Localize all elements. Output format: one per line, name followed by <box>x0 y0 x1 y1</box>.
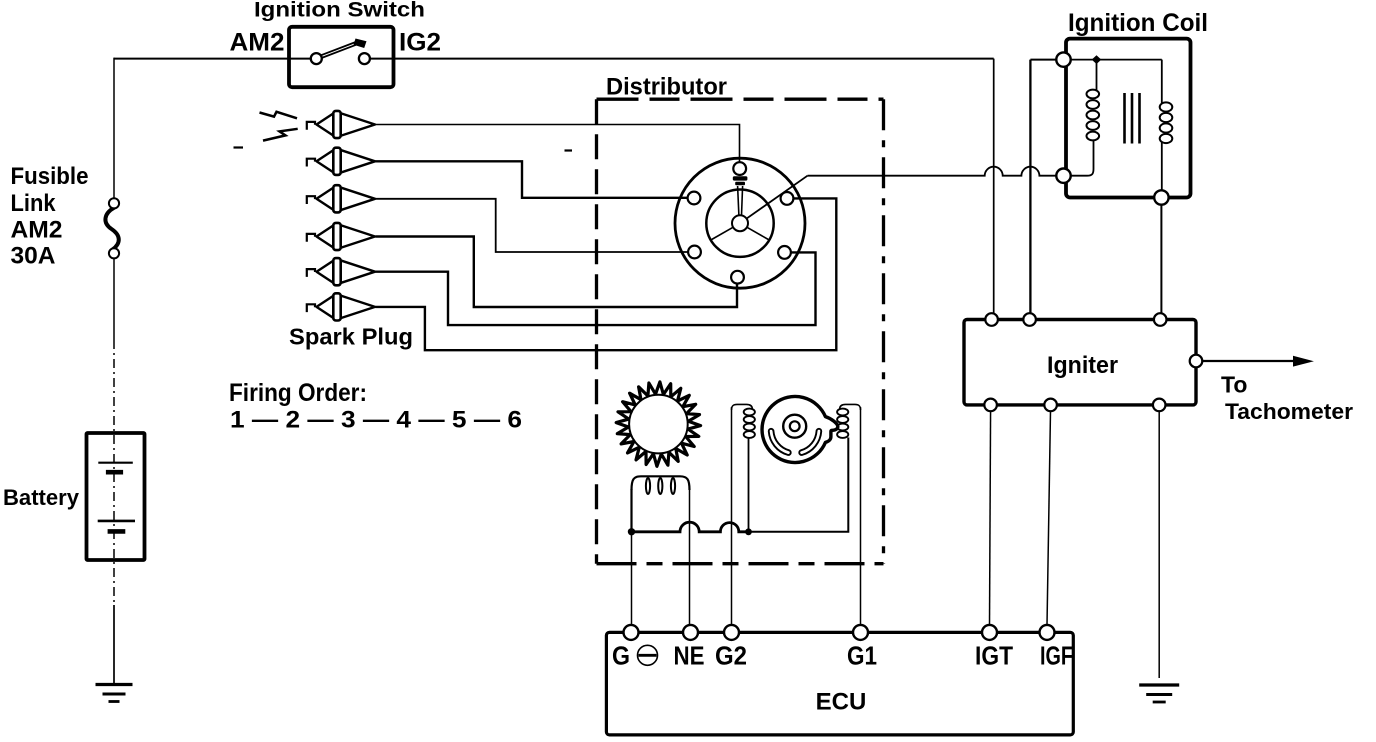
svg-text:ECU: ECU <box>816 689 867 716</box>
svg-text:Igniter: Igniter <box>1047 352 1118 379</box>
svg-text:Battery: Battery <box>3 485 80 510</box>
svg-text:To: To <box>1221 372 1247 398</box>
svg-text:IG2: IG2 <box>399 29 441 57</box>
svg-text:Firing Order:: Firing Order: <box>229 379 367 407</box>
svg-text:IGT: IGT <box>975 640 1013 670</box>
svg-text:G2: G2 <box>715 640 747 670</box>
svg-text:Ignition Switch: Ignition Switch <box>254 0 425 22</box>
svg-text:Spark Plug: Spark Plug <box>289 324 413 350</box>
svg-text:1 — 2 — 3 — 4 — 5 — 6: 1 — 2 — 3 — 4 — 5 — 6 <box>230 407 522 434</box>
svg-text:Fusible: Fusible <box>11 163 89 190</box>
svg-text:Tachometer: Tachometer <box>1225 399 1353 424</box>
svg-text:30A: 30A <box>11 243 56 270</box>
svg-text:AM2: AM2 <box>11 217 63 244</box>
svg-text:Link: Link <box>11 190 57 217</box>
svg-text:AM2: AM2 <box>230 29 285 57</box>
svg-text:Distributor: Distributor <box>606 74 727 101</box>
svg-text:IGF: IGF <box>1040 640 1073 670</box>
svg-text:Ignition Coil: Ignition Coil <box>1068 9 1208 37</box>
svg-text:G1: G1 <box>847 640 877 670</box>
svg-text:G: G <box>612 640 630 670</box>
svg-text:NE: NE <box>674 640 705 670</box>
